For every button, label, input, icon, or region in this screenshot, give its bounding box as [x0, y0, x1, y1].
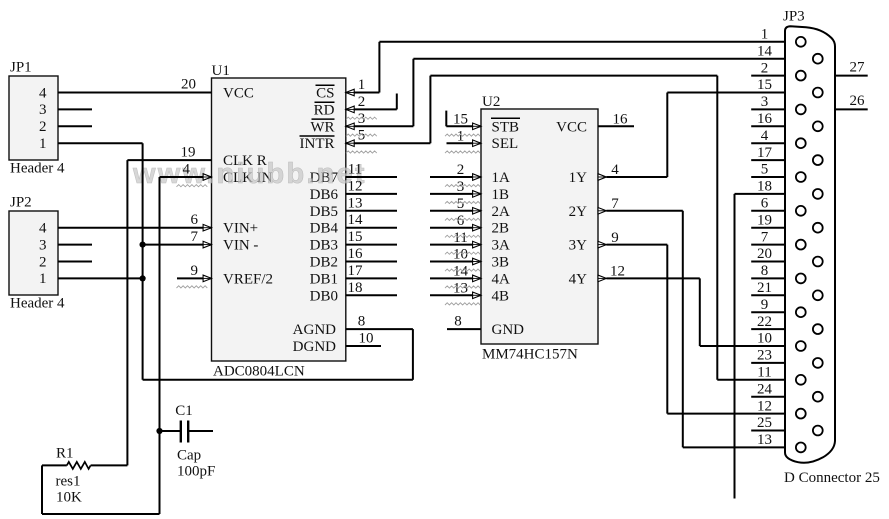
wire JP3 pin7 stub	[751, 244, 785, 246]
wire U1 DB2 pin16 stub	[346, 261, 397, 263]
connector JP1	[9, 60, 65, 177]
svg-text:6: 6	[761, 196, 769, 212]
svg-text:2: 2	[39, 119, 47, 135]
svg-text:11: 11	[757, 365, 771, 381]
svg-text:13: 13	[453, 281, 468, 297]
svg-text:1: 1	[358, 77, 366, 93]
wire JP3 pin8 stub	[751, 277, 785, 279]
squiggle no-ERC 3A	[445, 252, 480, 254]
svg-text:18: 18	[757, 179, 772, 195]
wire JP3 pin4 stub	[751, 142, 785, 144]
U1 right pin names	[293, 86, 339, 356]
svg-text:4Y: 4Y	[569, 271, 588, 287]
svg-text:VCC: VCC	[556, 119, 587, 135]
wire VIN- from junction to U1 pin7	[143, 241, 212, 248]
svg-text:8: 8	[454, 314, 462, 330]
svg-text:GND: GND	[492, 322, 525, 338]
U2 pin number labels left: 15 1 2 3 5 6 11 10 14 13 8	[453, 112, 469, 330]
svg-text:INTR: INTR	[300, 136, 335, 152]
svg-text:2B: 2B	[492, 221, 510, 237]
svg-text:5: 5	[457, 196, 465, 212]
svg-text:12: 12	[757, 398, 772, 414]
wire U1 DB6 pin12 stub	[346, 193, 397, 195]
svg-text:17: 17	[348, 263, 364, 279]
svg-text:SEL: SEL	[492, 136, 519, 152]
wire U2 2Y pin7 to JP3 pin13	[598, 208, 785, 448]
U2 STB overline	[491, 117, 520, 119]
wire JP1 pin1 vertical down to AGND rail	[142, 143, 144, 380]
JP3 left column pin circles 1-13	[796, 37, 806, 452]
wire JP3 pin19 stub	[751, 227, 785, 229]
svg-text:DB1: DB1	[310, 271, 338, 287]
svg-text:DGND: DGND	[293, 339, 336, 355]
wire U1 DB1 pin17 stub	[346, 277, 397, 279]
U1 active-low overlines CS RD WR INTR	[300, 85, 335, 136]
svg-text:DB0: DB0	[310, 288, 338, 304]
svg-text:9: 9	[761, 297, 769, 313]
wire JP3 pin9 stub	[751, 311, 785, 313]
JP3 pin number labels	[757, 27, 865, 449]
squiggle no-ERC WR	[346, 134, 377, 136]
squiggle no-ERC 2B	[445, 235, 480, 237]
svg-text:15: 15	[757, 77, 772, 93]
wire C1 left lead	[160, 430, 181, 432]
svg-text:JP2: JP2	[10, 195, 32, 211]
svg-text:3B: 3B	[492, 255, 510, 271]
svg-text:Header 4: Header 4	[10, 161, 65, 177]
svg-text:U1: U1	[212, 63, 230, 79]
svg-text:13: 13	[757, 432, 772, 448]
svg-text:12: 12	[348, 178, 363, 194]
wire U2 3A pin11 stub	[430, 241, 481, 248]
wire JP3 pin27 stub	[835, 75, 868, 77]
svg-text:10: 10	[453, 247, 468, 263]
wire U1 WR pin3 to JP3 pin14	[346, 59, 785, 130]
wire bottom rail to C1 branch	[42, 513, 160, 515]
svg-text:19: 19	[757, 212, 772, 228]
svg-text:21: 21	[757, 280, 772, 296]
wire JP3 pin25 stub	[751, 430, 785, 432]
wire U2 4A pin14 stub	[430, 275, 481, 282]
wire JP3 pin18 dangling drop	[735, 194, 786, 499]
svg-text:20: 20	[181, 77, 196, 93]
svg-text:10: 10	[757, 331, 772, 347]
wire JP3 pin6 stub	[751, 210, 785, 212]
svg-text:3: 3	[761, 94, 769, 110]
U2 pin number labels right: 16 4 7 9 12	[610, 112, 628, 280]
svg-text:14: 14	[453, 264, 469, 280]
svg-text:8: 8	[761, 263, 769, 279]
wire U1 DGND pin10 stub	[346, 345, 381, 347]
svg-text:1A: 1A	[492, 170, 511, 186]
svg-text:12: 12	[610, 264, 625, 280]
svg-text:15: 15	[453, 112, 468, 128]
U2 right pin names	[556, 119, 587, 287]
wire U1 DB5 pin13 stub	[346, 210, 397, 212]
wire JP2 pin1 to ground net	[58, 277, 143, 279]
svg-text:2Y: 2Y	[569, 204, 588, 220]
squiggle no-ERC 4B	[445, 303, 480, 305]
squiggle no-ERC 2A	[445, 218, 480, 220]
svg-text:DB5: DB5	[310, 204, 338, 220]
svg-text:4: 4	[761, 128, 769, 144]
squiggle no-ERC INTR	[346, 151, 377, 153]
wire JP3 pin21 stub	[751, 294, 785, 296]
svg-text:19: 19	[181, 145, 196, 161]
squiggle no-ERC STB	[445, 134, 480, 136]
svg-text:16: 16	[757, 111, 773, 127]
wire JP2 pin4 to U1 VIN+	[58, 224, 212, 231]
svg-text:10K: 10K	[56, 490, 82, 506]
wire U2 1Y pin4 to JP3 pin15	[598, 93, 785, 181]
wire JP2 pin3 stub	[58, 244, 92, 246]
wire CLK IN vertical down through C1 to bottom rail	[159, 177, 161, 514]
svg-text:17: 17	[757, 145, 773, 161]
svg-text:3: 3	[457, 179, 465, 195]
wire U2 2B pin6 stub	[430, 224, 481, 231]
svg-text:JP1: JP1	[10, 60, 32, 76]
wire U2 4Y pin12 to JP3 pin10	[598, 275, 785, 346]
U1 pin number labels right side: 1 2 3 5 11-18 8 10	[348, 77, 374, 347]
svg-text:9: 9	[611, 230, 619, 246]
wire U2 2A pin5 stub	[430, 208, 481, 215]
svg-text:18: 18	[348, 280, 363, 296]
svg-text:10: 10	[359, 331, 374, 347]
svg-text:Cap: Cap	[177, 448, 201, 464]
svg-text:DB3: DB3	[310, 238, 338, 254]
wire JP3 pin16 stub	[751, 125, 785, 127]
JP3 right column pin circles 14-25	[813, 54, 823, 436]
wire JP1 pin4 to U1 VCC pin20	[58, 92, 212, 94]
svg-text:4B: 4B	[492, 288, 510, 304]
wire U2 SEL pin1 stub	[447, 140, 482, 147]
wire R1 right lead to CLK R vertical	[91, 464, 128, 466]
svg-text:STB: STB	[492, 119, 520, 135]
junction JP2 pin1 ground-net	[140, 275, 146, 281]
svg-text:1Y: 1Y	[569, 170, 588, 186]
op-amp U1 ADC0804LCN body	[212, 63, 346, 380]
svg-text:9: 9	[191, 263, 199, 279]
connector JP2	[9, 195, 65, 312]
svg-text:6: 6	[457, 213, 465, 229]
svg-text:JP3: JP3	[783, 9, 805, 25]
wire JP3 pin24 stub	[751, 396, 785, 398]
svg-text:20: 20	[757, 246, 772, 262]
svg-text:13: 13	[348, 195, 363, 211]
wire U2 3Y pin9 to JP3 pin12	[598, 241, 785, 413]
svg-text:2: 2	[761, 60, 769, 76]
svg-text:5: 5	[761, 162, 769, 178]
svg-text:100pF: 100pF	[177, 464, 215, 480]
wire U1 CS pin1 to JP3 pin1	[346, 42, 785, 96]
svg-text:DB2: DB2	[310, 255, 338, 271]
svg-text:4: 4	[39, 221, 47, 237]
svg-text:3: 3	[39, 102, 47, 118]
wire JP3 pin2 stub	[751, 75, 785, 77]
svg-text:1: 1	[39, 271, 47, 287]
svg-text:VIN+: VIN+	[223, 221, 258, 237]
svg-text:11: 11	[348, 162, 362, 178]
U2 left pin names	[492, 119, 525, 338]
svg-text:11: 11	[453, 230, 467, 246]
wire JP2 pin2 stub	[58, 261, 92, 263]
svg-text:D Connector 25: D Connector 25	[784, 470, 880, 486]
svg-text:2A: 2A	[492, 204, 511, 220]
wire U1 DB3 pin15 stub	[346, 244, 397, 246]
svg-text:7: 7	[611, 196, 619, 212]
svg-text:2: 2	[39, 254, 47, 270]
svg-text:23: 23	[757, 348, 772, 364]
svg-text:res1: res1	[56, 474, 81, 490]
connector JP3 D-sub body	[783, 9, 880, 487]
svg-text:16: 16	[348, 246, 364, 262]
squiggle no-ERC 1A	[445, 185, 480, 187]
squiggle no-ERC RD	[346, 117, 377, 119]
squiggle no-ERC VREF/2	[177, 286, 208, 288]
wire U1 DB0 pin18 stub	[346, 294, 397, 296]
squiggle no-ERC SEL	[445, 151, 480, 153]
resistor R1 res1 10K	[56, 446, 91, 506]
wire JP3 pin17 stub	[751, 159, 785, 161]
wire U2 STB pin15 stub with riser	[446, 111, 481, 130]
wire JP1 pin2 stub	[58, 125, 92, 127]
svg-text:ADC0804LCN: ADC0804LCN	[213, 364, 305, 380]
svg-text:4: 4	[39, 85, 47, 101]
wire CLK R vertical down to R1	[126, 160, 128, 465]
wire JP3 pin22 stub	[751, 328, 785, 330]
wire R1 bottom loop vertical	[41, 465, 43, 514]
svg-text:2: 2	[358, 94, 366, 110]
svg-text:WR: WR	[310, 119, 334, 135]
wire U1 AGND pin8 to ground rail	[143, 329, 413, 380]
wire U1 DB7 pin11 stub	[346, 176, 397, 178]
junction C1 clock net	[156, 428, 162, 434]
svg-text:DB4: DB4	[310, 221, 339, 237]
svg-text:MM74HC157N: MM74HC157N	[482, 347, 578, 363]
svg-text:1: 1	[761, 27, 769, 43]
svg-text:www.niubb.net: www.niubb.net	[132, 158, 367, 190]
svg-text:RD: RD	[314, 102, 335, 118]
wire JP3 pin20 stub	[751, 261, 785, 263]
svg-text:Header 4: Header 4	[10, 296, 65, 312]
svg-text:AGND: AGND	[293, 322, 336, 338]
svg-text:4A: 4A	[492, 271, 511, 287]
squiggle no-ERC 4A	[445, 286, 480, 288]
wire JP3 pin3 stub	[751, 108, 785, 110]
wire JP1 pin1 horizontal	[58, 142, 143, 144]
svg-text:26: 26	[850, 93, 866, 109]
svg-text:VCC: VCC	[223, 86, 254, 102]
svg-text:3Y: 3Y	[569, 238, 588, 254]
svg-text:14: 14	[757, 43, 773, 59]
svg-text:C1: C1	[175, 403, 193, 419]
svg-text:27: 27	[850, 59, 866, 75]
wire U1 VREF/2 pin9 stub	[177, 275, 212, 282]
wire U1 INTR pin5 to JP3 pin11	[346, 76, 785, 380]
squiggle no-ERC 1B	[445, 201, 480, 203]
wire U1 CLK R pin19 stub	[127, 159, 211, 161]
wire JP3 pin5 stub	[751, 176, 785, 178]
squiggle no-ERC 3B	[445, 269, 480, 271]
wire U1 DB4 pin14 stub	[346, 227, 397, 229]
squiggle no-ERC CLK IN	[177, 185, 208, 187]
svg-text:24: 24	[757, 381, 773, 397]
wire JP3 pin23 stub	[751, 362, 785, 364]
wire U1 CLK IN pin4	[160, 174, 212, 181]
watermark www.niubb.net	[132, 158, 367, 190]
wire U2 1B pin3 stub	[430, 191, 481, 198]
svg-text:6: 6	[191, 212, 199, 228]
wire C1 right lead stub	[188, 430, 213, 432]
multiplexer U2 MM74HC157N body	[481, 94, 598, 363]
wire JP1 pin3 stub	[58, 108, 92, 110]
svg-text:VIN -: VIN -	[223, 238, 258, 254]
svg-text:R1: R1	[56, 446, 74, 462]
junction VIN- ground-net	[140, 242, 146, 248]
capacitor C1 Cap 100pF	[175, 403, 215, 480]
svg-text:3A: 3A	[492, 238, 511, 254]
wire U1 RD pin2 dangling stub	[346, 94, 397, 113]
svg-text:U2: U2	[482, 94, 500, 110]
svg-text:4: 4	[611, 162, 619, 178]
svg-text:1B: 1B	[492, 187, 510, 203]
svg-text:25: 25	[757, 415, 772, 431]
svg-text:14: 14	[348, 212, 364, 228]
svg-text:22: 22	[757, 314, 772, 330]
wire U2 4B pin13 stub	[430, 292, 481, 299]
svg-text:2: 2	[457, 162, 465, 178]
svg-text:4: 4	[183, 162, 191, 178]
svg-text:7: 7	[761, 229, 769, 245]
svg-text:CS: CS	[316, 86, 334, 102]
wire U2 3B pin10 stub	[430, 258, 481, 265]
svg-text:7: 7	[191, 229, 199, 245]
svg-text:16: 16	[613, 112, 629, 128]
U1 left pin names	[223, 86, 273, 288]
wire U2 GND pin8 stub	[447, 328, 481, 330]
wire U2 1A pin2 stub	[430, 174, 481, 181]
U1 pin number labels left side: 20 19 4 6 7 9	[181, 77, 199, 279]
svg-text:15: 15	[348, 229, 363, 245]
svg-text:1: 1	[39, 136, 47, 152]
wire U2 VCC pin16 stub	[598, 125, 634, 127]
wire JP3 pin26 stub	[835, 108, 868, 110]
svg-text:VREF/2: VREF/2	[223, 271, 273, 287]
wire R1 left lead	[42, 464, 67, 466]
svg-text:3: 3	[39, 237, 47, 253]
svg-text:8: 8	[358, 314, 366, 330]
